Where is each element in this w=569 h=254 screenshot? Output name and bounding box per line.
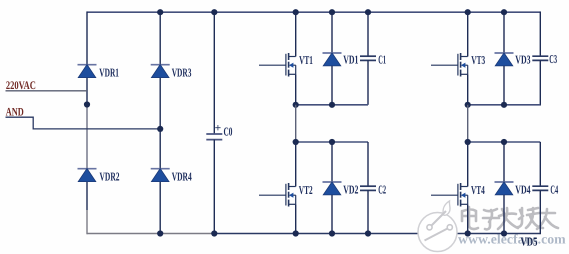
wire VT4 drain	[467, 142, 469, 187]
wire left bridge branch middle	[86, 78, 88, 105]
nodes leg2 lower top rail	[465, 139, 508, 145]
transistor VT2	[259, 183, 296, 207]
svg-text:VT2: VT2	[299, 183, 313, 197]
svg-text:VD2: VD2	[343, 182, 358, 196]
wire VD3 branch lower	[503, 66, 505, 105]
capacitor C0	[206, 134, 222, 140]
svg-text:VT4: VT4	[471, 183, 485, 197]
wire left bridge branch lower gray	[86, 210, 88, 234]
node 220VAC junction	[84, 101, 90, 107]
wire VT1 drain	[295, 12, 297, 56]
svg-text:VD3: VD3	[515, 52, 530, 66]
capacitor C2	[360, 186, 376, 190]
wire bottom rail gray left section	[87, 233, 215, 235]
diode VD1	[323, 53, 342, 66]
wire leg2 lower top rail	[468, 141, 541, 143]
svg-text:VDR3: VDR3	[172, 66, 192, 80]
svg-text:VD4: VD4	[515, 182, 530, 196]
wire second bridge branch middle	[159, 78, 161, 169]
wire C1 branch upper	[367, 12, 369, 56]
diode VDR1	[78, 65, 97, 78]
wire C0 branch upper	[213, 12, 215, 134]
wire leg2 mid rail	[468, 104, 541, 106]
wire C1 branch lower	[367, 60, 369, 104]
nodes leg2 mid rail	[465, 102, 508, 108]
wire second bridge branch lower	[159, 182, 161, 234]
watermark chinese characters	[462, 207, 559, 230]
wire C0 branch lower	[213, 140, 215, 234]
wire C4 branch upper	[539, 142, 541, 186]
wire bottom rail navy section	[214, 233, 540, 235]
capacitor C3	[532, 56, 548, 60]
wire VD4 branch upper	[503, 142, 505, 182]
wire C4 branch lower	[539, 190, 541, 234]
svg-text:VD1: VD1	[343, 52, 358, 66]
wire C2 branch lower	[367, 190, 369, 233]
svg-text:VDR4: VDR4	[172, 169, 192, 183]
wire VT1 source	[295, 74, 297, 105]
svg-text:+: +	[215, 122, 222, 134]
wire C3 branch lower	[539, 60, 541, 105]
nodes leg1 lower top rail	[293, 139, 336, 145]
wire top rail	[87, 11, 541, 13]
wire left bridge branch lower	[86, 182, 88, 210]
transistor VT1	[259, 53, 296, 77]
wire leg1 mid rail	[296, 104, 368, 106]
wire left bridge branch upper	[86, 12, 88, 65]
wire VT3 source	[467, 74, 469, 105]
svg-text:VDR1: VDR1	[99, 66, 119, 80]
diode VDR3	[151, 65, 170, 78]
wire VD3 branch upper	[503, 12, 505, 53]
nodes leg1 mid rail	[293, 102, 336, 108]
wire leg1 phase connector	[295, 105, 297, 142]
svg-text:VT3: VT3	[471, 53, 485, 67]
wire VT2 drain	[295, 142, 297, 187]
svg-text:C1: C1	[378, 52, 386, 66]
svg-text:C0: C0	[224, 124, 233, 138]
diode VD2	[323, 182, 342, 195]
svg-text:C4: C4	[550, 182, 558, 196]
svg-text:VT1: VT1	[299, 53, 313, 67]
wire VT2 source	[295, 204, 297, 233]
wire 220VAC input	[6, 90, 88, 92]
transistor VT4	[431, 183, 468, 207]
wire VD1 branch upper	[331, 12, 333, 53]
diode VDR4	[151, 169, 170, 182]
wire leg1 lower top rail	[296, 141, 368, 143]
wire AND input	[6, 117, 161, 129]
diode VD3	[495, 53, 514, 66]
transistor VT3	[431, 53, 468, 77]
watermark logo disc	[418, 201, 457, 252]
svg-text:VDR2: VDR2	[100, 169, 120, 183]
wire VD1 branch lower	[331, 66, 333, 105]
svg-text:VD5: VD5	[521, 235, 538, 249]
svg-text:C2: C2	[378, 182, 386, 196]
wire leg2 phase connector	[467, 105, 469, 142]
wire VD4 branch lower	[503, 195, 505, 234]
wire second bridge branch upper	[159, 12, 161, 64]
wire C2 branch upper	[367, 142, 369, 186]
wire VT3 drain	[467, 12, 469, 56]
wire VD2 branch upper	[331, 142, 333, 182]
diode VD4	[495, 182, 514, 195]
wire VT4 source	[467, 204, 469, 233]
wire VD2 branch lower	[331, 195, 333, 234]
diode VDR2	[78, 169, 97, 182]
nodes top rail	[157, 9, 507, 15]
capacitor C4	[532, 186, 548, 190]
nodes bottom rail	[157, 230, 507, 236]
wire C3 branch upper	[539, 12, 541, 57]
svg-text:C3: C3	[549, 52, 557, 66]
capacitor C1	[360, 56, 376, 60]
node AND junction	[157, 126, 163, 132]
wire left bridge branch middle gray	[86, 105, 88, 169]
